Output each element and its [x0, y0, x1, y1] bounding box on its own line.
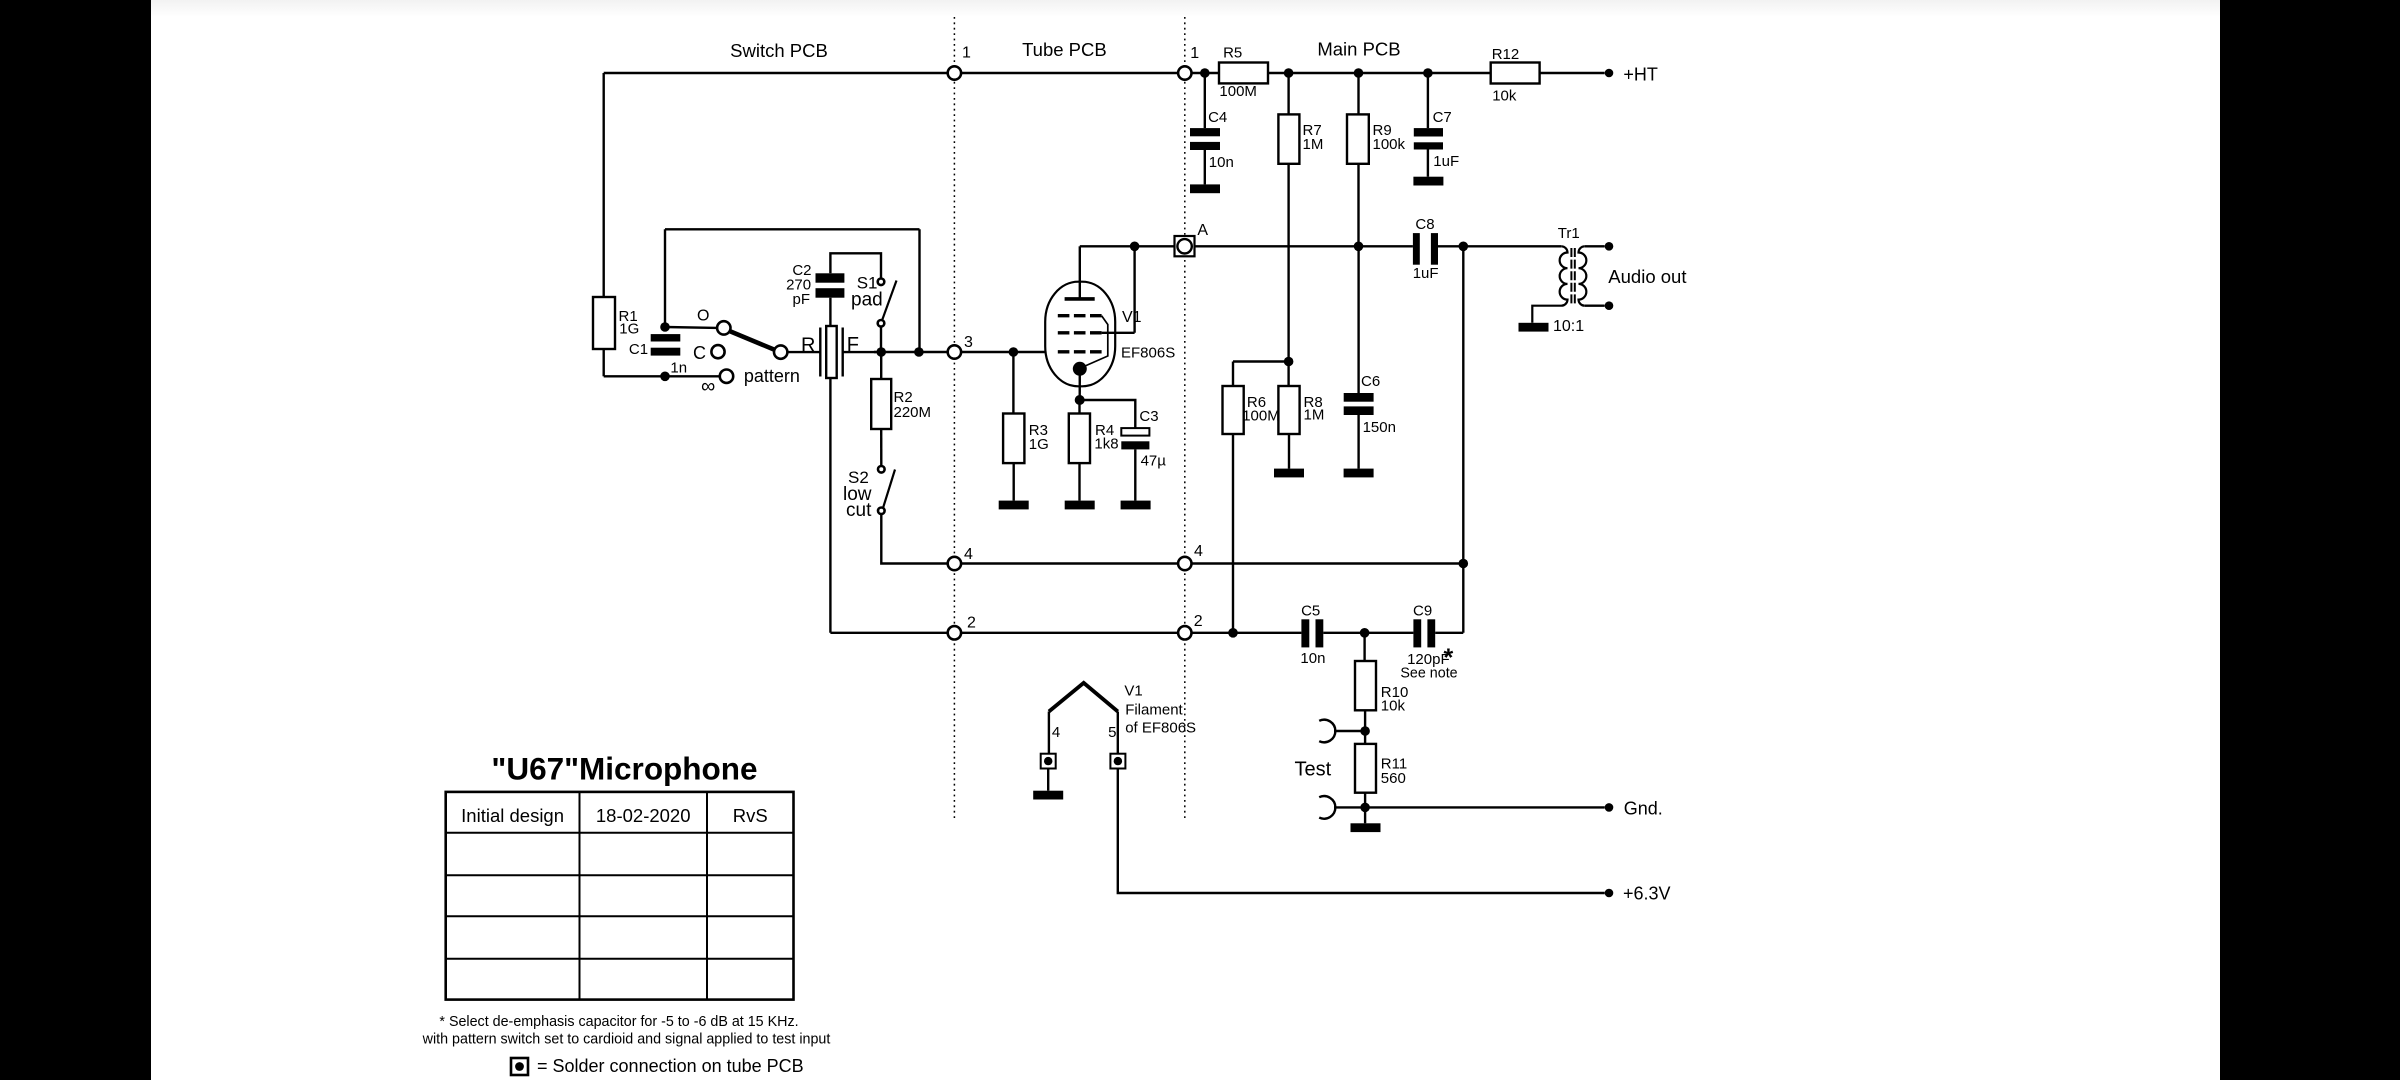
svg-text:2: 2: [967, 615, 976, 632]
svg-text:+6.3V: +6.3V: [1623, 884, 1671, 904]
wire R9 top: [1357, 73, 1359, 114]
wire C4 bottom: [1204, 150, 1206, 184]
wire g2 extension: [1102, 332, 1135, 334]
svg-text:2: 2: [1194, 613, 1203, 630]
svg-text:4: 4: [1194, 543, 1203, 560]
svg-text:Initial design: Initial design: [461, 805, 564, 826]
transformer Tr1 secondary winding: [1579, 246, 1587, 305]
connector 1 (tube/main PCB): [1178, 66, 1191, 79]
connector 2 (switch/tube PCB): [948, 626, 961, 639]
terminal audio out -: [1605, 301, 1614, 310]
svg-text:Tube PCB: Tube PCB: [1022, 39, 1107, 60]
junction test tap 2 / gnd: [1360, 803, 1370, 813]
resistor R1: [593, 297, 615, 349]
filament pin 5 lead: [1117, 712, 1119, 754]
connector 4 (switch/tube PCB): [948, 557, 961, 570]
junction test tap 1: [1360, 726, 1370, 736]
wire R11 bottom: [1364, 793, 1366, 808]
wire secondary top: [1585, 245, 1605, 247]
svg-text:Test: Test: [1295, 759, 1332, 781]
tube V1 grid g2: [1058, 331, 1102, 334]
pattern switch blade: [727, 330, 778, 351]
svg-text:C9: C9: [1413, 603, 1432, 620]
ground C6: [1344, 469, 1374, 478]
svg-text:1G: 1G: [1029, 436, 1049, 453]
wire R10 bottom: [1364, 710, 1366, 744]
wire capsule to junction: [843, 351, 876, 353]
svg-text:V1: V1: [1122, 309, 1142, 326]
svg-text:C: C: [693, 343, 706, 363]
wire S2 to row4: [881, 514, 951, 563]
wire R7 top: [1287, 73, 1289, 114]
capacitor C4 plate2: [1190, 142, 1220, 150]
ground R3: [999, 501, 1029, 510]
wire R3 bottom: [1013, 463, 1015, 501]
capacitor C1 plate1: [651, 334, 681, 341]
svg-text:10:1: 10:1: [1553, 318, 1584, 335]
ground C4: [1190, 184, 1220, 193]
resistor R9: [1347, 114, 1369, 163]
junction C8/feedback: [1459, 242, 1469, 252]
capacitor C3 plate1 (polarized): [1121, 428, 1149, 436]
capacitor C6 plate2: [1344, 406, 1374, 415]
svg-text:pattern: pattern: [744, 366, 800, 386]
capsule rear plate: [819, 328, 821, 377]
svg-text:with pattern switch set to car: with pattern switch set to cardioid and …: [422, 1032, 831, 1048]
junction C1 bottom: [660, 372, 670, 382]
node A circle: [1177, 239, 1191, 253]
junction R3 top: [1009, 347, 1019, 357]
svg-text:1uF: 1uF: [1413, 265, 1439, 282]
wire C7 bottom: [1427, 150, 1429, 177]
svg-text:C7: C7: [1433, 109, 1452, 126]
junction g2 feedback: [1130, 242, 1140, 252]
transformer Tr1 primary winding: [1532, 246, 1567, 322]
test tap 1 arc: [1319, 720, 1335, 743]
Switch PCB / Tube PCB boundary dotted line: [953, 17, 955, 821]
switch S2 top contact: [878, 466, 885, 473]
svg-text:of EF806S: of EF806S: [1125, 720, 1196, 737]
svg-text:4: 4: [1052, 724, 1060, 741]
svg-text:See note: See note: [1400, 666, 1457, 682]
svg-text:Gnd.: Gnd.: [1624, 799, 1663, 819]
svg-text:C5: C5: [1301, 603, 1320, 620]
svg-text:5: 5: [1108, 724, 1116, 741]
svg-text:V1: V1: [1124, 683, 1142, 700]
tube V1 anode plate: [1065, 297, 1095, 301]
terminal Gnd: [1605, 803, 1614, 812]
wire S1 bottom: [880, 327, 882, 352]
wire R10 top: [1363, 633, 1365, 661]
svg-text:47µ: 47µ: [1141, 453, 1167, 470]
wire +HT rail: [604, 72, 1605, 74]
junction R10 top: [1360, 628, 1370, 638]
ground R4: [1065, 501, 1095, 510]
junction R2 top: [876, 347, 886, 357]
capacitor C4 plate1: [1190, 128, 1220, 136]
resistor R7: [1278, 114, 1299, 163]
svg-text:1M: 1M: [1304, 407, 1325, 424]
filament pin 4 lead: [1048, 712, 1050, 754]
svg-text:1n: 1n: [670, 360, 687, 377]
capacitor C9 plate2: [1427, 619, 1435, 647]
wire test tap 1: [1334, 730, 1365, 732]
junction C4/rail: [1200, 68, 1210, 78]
svg-text:1: 1: [962, 45, 971, 62]
junction C1 top / O wire: [660, 322, 670, 332]
junction row4/feedback: [1459, 559, 1469, 569]
capacitor C2 plate2: [816, 288, 845, 298]
svg-text:A: A: [1197, 222, 1208, 239]
switch S1 top contact: [878, 279, 885, 286]
revision table row lines: [446, 832, 794, 834]
svg-text:pad: pad: [851, 290, 883, 311]
ground C7: [1413, 177, 1443, 186]
svg-text:1k8: 1k8: [1094, 436, 1118, 453]
terminal audio out +: [1605, 242, 1614, 251]
capacitor C5 plate1: [1301, 619, 1309, 647]
svg-text:100M: 100M: [1242, 408, 1280, 425]
pattern switch wiper: [774, 345, 787, 358]
resistor R6: [1223, 386, 1244, 434]
junction R9/rail: [1354, 68, 1364, 78]
tube V1 filament: [1049, 683, 1118, 712]
capacitor C2 plate1: [816, 273, 845, 282]
wire gnd symbol stub: [1364, 807, 1366, 823]
switch S2 blade: [883, 470, 895, 509]
junction cathode/R4/C3: [1075, 395, 1085, 405]
capacitor C3 plate2: [1121, 441, 1149, 449]
wire g2 feedback down: [1133, 246, 1135, 332]
ground C3: [1121, 501, 1151, 510]
svg-text:10k: 10k: [1381, 698, 1406, 715]
node A solder square: [1175, 236, 1195, 256]
capsule membrane box: [826, 326, 837, 378]
svg-text:C6: C6: [1361, 373, 1380, 390]
wire node A to C8: [1195, 245, 1413, 247]
svg-text:R: R: [801, 335, 815, 357]
wire R10 junction to C9: [1365, 632, 1414, 634]
svg-text:10n: 10n: [1300, 650, 1325, 667]
pattern switch contact C: [711, 345, 724, 358]
capacitor C9 plate1: [1413, 619, 1421, 647]
wire loop left: [664, 229, 666, 327]
Tube PCB / Main PCB boundary dotted line: [1184, 17, 1186, 818]
svg-text:10n: 10n: [1209, 154, 1234, 171]
svg-text:∞: ∞: [701, 376, 715, 398]
ground main: [1351, 823, 1381, 832]
wire R6-R8 link: [1233, 360, 1289, 362]
capsule front plate: [842, 328, 844, 377]
junction R9/C6 row A: [1354, 242, 1364, 252]
solder connection pin 4: [1041, 754, 1056, 769]
tube V1 g3-cathode link: [1081, 316, 1108, 368]
wire capsule output row: [874, 351, 948, 353]
wire R2 top: [880, 352, 882, 379]
capacitor C7 plate1: [1414, 128, 1443, 136]
ground Tr1 primary: [1519, 323, 1549, 332]
svg-text:1uF: 1uF: [1433, 153, 1459, 170]
wire loop top: [665, 228, 920, 230]
wire C2 top: [830, 253, 881, 278]
terminal +HT: [1605, 69, 1614, 78]
capacitor C1 plate2: [651, 348, 681, 356]
svg-text:RvS: RvS: [733, 805, 768, 826]
resistor R4: [1069, 414, 1090, 464]
wire capsule center down: [829, 378, 831, 633]
resistor R10: [1355, 661, 1376, 710]
wire C3 bottom: [1134, 449, 1136, 500]
tube V1 anode lead: [1079, 246, 1081, 299]
wire row 2: [830, 632, 1301, 634]
wire R4 bottom: [1078, 463, 1080, 501]
connector 4 (tube/main PCB): [1178, 557, 1191, 570]
svg-text:1G: 1G: [619, 321, 639, 338]
wire R7-R8: [1287, 164, 1289, 386]
wire R9 bottom: [1357, 164, 1359, 247]
svg-text:150n: 150n: [1363, 419, 1396, 436]
capacitor C5 plate2: [1316, 619, 1324, 647]
switch S2 bottom contact: [878, 508, 885, 515]
svg-text:1: 1: [1190, 45, 1199, 62]
svg-text:"U67"Microphone: "U67"Microphone: [491, 750, 757, 786]
wire left rail top: [603, 73, 605, 297]
solder connection pin 5: [1110, 754, 1125, 769]
legend solder symbol: [511, 1058, 528, 1075]
wire feedback vertical: [1462, 246, 1464, 633]
tube V1 envelope: [1045, 282, 1115, 387]
svg-text:pF: pF: [792, 291, 810, 308]
ground filament: [1033, 791, 1063, 800]
wire secondary bottom: [1585, 305, 1605, 307]
capacitor C7 plate2: [1414, 142, 1443, 149]
junction R8 top: [1284, 357, 1294, 367]
wire to O contact: [665, 326, 717, 329]
svg-text:C3: C3: [1139, 408, 1158, 425]
resistor R3: [1003, 414, 1024, 464]
wire R4 top: [1078, 400, 1080, 414]
tube V1 cathode lead: [1078, 369, 1081, 400]
svg-text:100M: 100M: [1219, 83, 1257, 100]
svg-text:3: 3: [964, 334, 973, 351]
resistor R8: [1278, 386, 1299, 434]
wire C8 to Tr1: [1438, 245, 1561, 247]
wire C5 to R10: [1323, 632, 1364, 634]
wire g1 input: [961, 351, 1045, 353]
svg-text:560: 560: [1381, 770, 1406, 787]
wire C4 top: [1204, 73, 1206, 128]
svg-text:EF806S: EF806S: [1121, 345, 1175, 362]
svg-text:4: 4: [964, 546, 973, 563]
wire R1 bottom: [603, 349, 605, 376]
pattern switch contact infinity: [720, 370, 733, 383]
test tap 2 arc: [1319, 796, 1335, 819]
wire gnd rail: [1334, 806, 1605, 808]
tube V1 grid g3: [1058, 314, 1102, 317]
capacitor C8 plate1: [1413, 233, 1420, 265]
wire wiper to capsule: [787, 351, 820, 353]
terminal +6.3V: [1605, 889, 1614, 898]
wire R2 bottom: [880, 429, 882, 466]
resistor R12: [1491, 63, 1540, 84]
switch S1 bottom contact: [878, 320, 885, 327]
junction C7/rail: [1423, 68, 1433, 78]
svg-text:+HT: +HT: [1623, 65, 1658, 85]
svg-text:10k: 10k: [1492, 88, 1517, 105]
capacitor C6 plate1: [1344, 393, 1374, 402]
wire R8 bottom: [1288, 434, 1290, 469]
resistor R11: [1355, 744, 1376, 793]
wire C2 bottom: [829, 298, 831, 326]
svg-text:R12: R12: [1492, 46, 1520, 63]
wire row 4: [951, 562, 1463, 564]
junction R7/rail: [1284, 68, 1294, 78]
ground R8: [1274, 469, 1304, 478]
svg-text:Tr1: Tr1: [1558, 225, 1580, 242]
switch S1 blade: [882, 281, 897, 321]
wire R6 top: [1232, 362, 1234, 387]
svg-text:O: O: [697, 308, 709, 325]
tube V1 grid g1: [1058, 350, 1102, 353]
wire C6 up: [1357, 246, 1359, 393]
wire pin4 to ground: [1047, 769, 1049, 791]
wire R3 top: [1012, 352, 1014, 414]
wire cathode to C3: [1080, 400, 1136, 428]
svg-text:Main PCB: Main PCB: [1317, 39, 1400, 60]
junction R6/row2: [1228, 628, 1238, 638]
wire infinity row: [604, 375, 720, 377]
svg-text:1M: 1M: [1303, 136, 1324, 153]
svg-text:220M: 220M: [894, 404, 932, 421]
wire R6 bottom: [1232, 434, 1234, 633]
svg-text:* Select de-emphasis capacitor: * Select de-emphasis capacitor for -5 to…: [439, 1014, 798, 1030]
svg-text:cut: cut: [846, 500, 872, 521]
transformer Tr1 core: [1570, 248, 1572, 306]
resistor R5: [1219, 63, 1268, 84]
revision table column lines: [579, 792, 581, 1000]
svg-text:18-02-2020: 18-02-2020: [596, 805, 691, 826]
wire C7 top: [1427, 73, 1429, 128]
svg-text:Switch PCB: Switch PCB: [730, 40, 828, 61]
pattern switch contact O: [717, 321, 730, 334]
connector 3 (switch/tube PCB): [948, 345, 961, 358]
connector 2 (tube/main PCB): [1178, 626, 1191, 639]
resistor R2: [871, 379, 891, 429]
svg-text:C4: C4: [1208, 109, 1227, 126]
revision table frame: [446, 792, 794, 1000]
tube V1 cathode junction: [1073, 362, 1087, 376]
svg-text:100k: 100k: [1373, 136, 1406, 153]
wire anode to node A: [1080, 245, 1175, 247]
svg-text:Filament: Filament: [1125, 702, 1183, 719]
svg-text:C1: C1: [629, 341, 648, 358]
capacitor C8 plate2: [1431, 233, 1438, 265]
wire C6 bottom: [1357, 415, 1359, 469]
svg-text:= Solder connection on tube PC: = Solder connection on tube PCB: [537, 1056, 804, 1076]
connector 1 (switch/tube PCB): [948, 66, 961, 79]
junction loop right: [914, 347, 924, 357]
wire pin5 to +6.3V: [1118, 769, 1605, 894]
wire C9 to feedback: [1435, 632, 1463, 634]
svg-text:C8: C8: [1415, 216, 1434, 233]
svg-text:R5: R5: [1223, 45, 1242, 62]
wire loop right: [918, 229, 920, 352]
svg-text:Audio out: Audio out: [1608, 266, 1686, 287]
